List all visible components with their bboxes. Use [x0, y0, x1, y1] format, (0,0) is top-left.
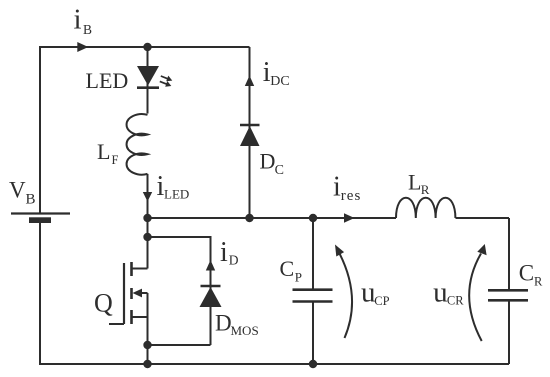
junction dot drain node: [143, 233, 151, 241]
diode DC: [240, 125, 260, 146]
label uCP: [361, 276, 390, 308]
svg-text:i: i: [220, 237, 228, 268]
svg-text:LED: LED: [86, 68, 129, 93]
svg-text:DC: DC: [270, 74, 289, 89]
wire LED branch lower: [147, 174, 149, 218]
wire right lower: [508, 301, 510, 364]
arrow iB: [77, 42, 88, 52]
wire source: [147, 293, 149, 364]
svg-text:i: i: [74, 4, 82, 36]
label VB: [9, 178, 36, 208]
wire drain: [147, 218, 149, 269]
wire right upper: [508, 218, 510, 290]
junction dot source DMOS: [143, 341, 151, 349]
label iLED: [157, 171, 190, 202]
junction dot source bottom: [143, 360, 151, 368]
svg-text:CP: CP: [374, 294, 389, 308]
svg-text:res: res: [341, 188, 362, 204]
arrow uCR: [469, 244, 486, 341]
capacitor CP: [293, 290, 333, 302]
svg-text:Q: Q: [94, 289, 113, 318]
wire CP branch lower: [312, 302, 314, 364]
svg-text:F: F: [112, 153, 119, 167]
svg-text:C: C: [275, 163, 284, 178]
transistor Q: [109, 262, 148, 324]
wire DMOS bottom: [148, 344, 211, 346]
arrow uCP: [335, 245, 352, 339]
svg-text:D: D: [260, 149, 276, 174]
wire DMOS top: [148, 237, 211, 260]
junction dot node A mid: [245, 214, 253, 222]
svg-text:u: u: [433, 276, 448, 308]
label uCR: [433, 276, 464, 308]
diode DMOS: [200, 286, 222, 307]
label DC: [260, 149, 284, 179]
wire left upper: [39, 46, 41, 213]
svg-text:MOS: MOS: [231, 323, 259, 338]
junction dot CP bottom: [309, 360, 317, 368]
battery VB: [11, 214, 70, 224]
wire DC branch: [249, 47, 251, 218]
wire LED branch upper: [147, 47, 149, 114]
label CP: [280, 256, 302, 285]
wire top: [40, 46, 250, 48]
label CR: [519, 261, 543, 289]
svg-text:C: C: [280, 256, 295, 281]
svg-text:L: L: [97, 139, 110, 164]
label iDC: [263, 57, 290, 89]
svg-text:D: D: [229, 253, 239, 268]
svg-text:LED: LED: [164, 187, 189, 202]
svg-text:R: R: [421, 182, 430, 197]
label LF: [97, 139, 119, 167]
svg-text:C: C: [519, 261, 534, 286]
label iD: [220, 237, 239, 268]
LED diode: [137, 66, 159, 88]
arrow ires: [344, 213, 355, 222]
arrow iD: [206, 260, 215, 271]
wire left lower: [39, 222, 41, 365]
junction dot node A right: [309, 214, 317, 222]
capacitor CR: [488, 290, 528, 300]
svg-text:P: P: [295, 270, 302, 285]
label LR: [408, 170, 430, 198]
wire mid left: [148, 217, 397, 219]
wire mid right: [456, 217, 510, 219]
inductor LF: [127, 114, 148, 175]
label ires: [333, 172, 361, 205]
svg-text:R: R: [534, 275, 543, 289]
arrow iDC: [245, 76, 254, 87]
junction dot node A left: [143, 214, 151, 222]
label iB: [74, 4, 93, 38]
wire bottom: [39, 363, 509, 365]
svg-text:V: V: [9, 178, 26, 203]
wire CP branch upper: [312, 218, 314, 289]
wire DMOS branch: [210, 260, 212, 345]
label DMOS: [215, 311, 259, 339]
junction dot top LED: [143, 43, 151, 51]
svg-text:D: D: [215, 311, 232, 336]
svg-text:B: B: [26, 192, 36, 208]
inductor LR: [396, 198, 455, 218]
arrow iLED: [143, 192, 152, 202]
svg-text:CR: CR: [447, 294, 464, 308]
svg-text:L: L: [408, 170, 421, 195]
svg-text:B: B: [83, 22, 92, 37]
LED light arrows: [160, 76, 173, 87]
